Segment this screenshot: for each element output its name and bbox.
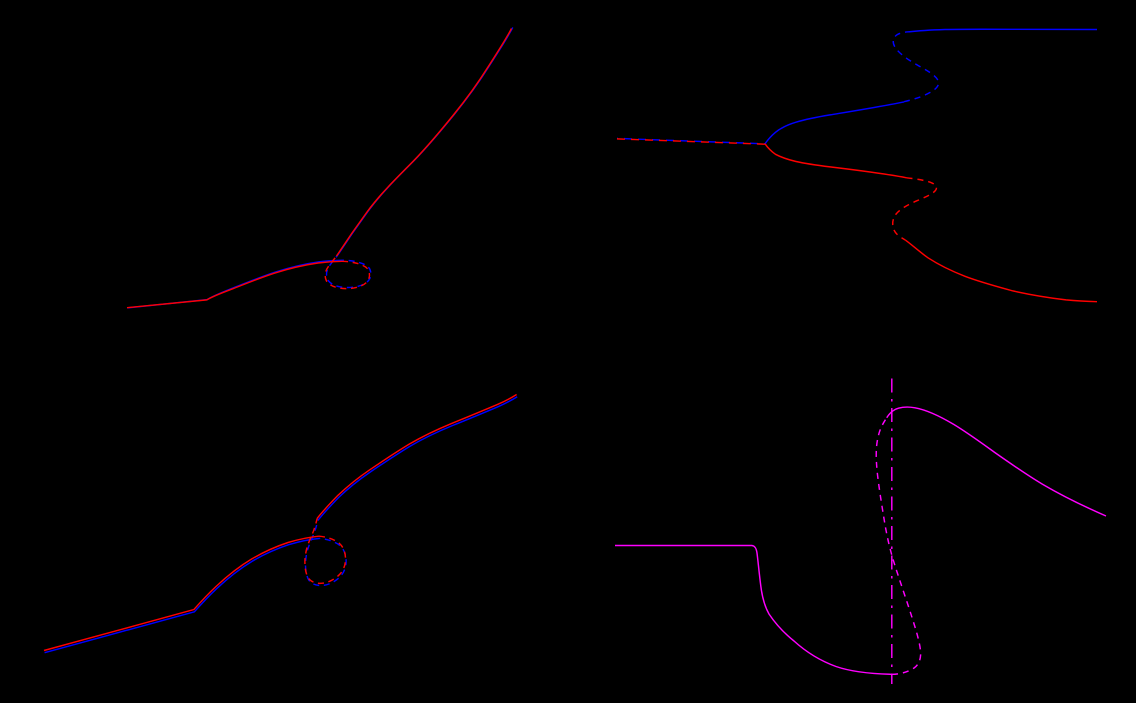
panel4 magenta dashed loop [876, 418, 920, 675]
panel3 blue rising branch [318, 397, 517, 521]
panel2 blue dashed S-fold [893, 32, 938, 102]
panel3 blue curve lower branch [45, 538, 320, 652]
panel2 red solid lower branch [906, 240, 1098, 302]
panel2 red dashed S-fold [893, 178, 937, 240]
panel2 blue solid top branch [909, 29, 1098, 32]
panel1 blue curve lower branch [127, 260, 343, 308]
panel3 red dashed loop [305, 518, 346, 583]
panel2 red dashed stem [617, 139, 765, 144]
panel1 red curve lower branch [127, 261, 342, 307]
panel4 magenta solid peak and descending branch [887, 407, 1106, 516]
panel3 blue dashed loop [305, 521, 346, 586]
panel3 red rising branch [317, 395, 516, 519]
panel1 blue rising branch [338, 27, 513, 255]
panel1 blue dashed loop [327, 255, 371, 288]
panel4 magenta dash-dot vertical line [891, 379, 893, 685]
panel1 red rising branch [337, 29, 512, 257]
panel3 red curve lower branch [44, 536, 319, 650]
panel2 red solid descending branch [765, 144, 907, 178]
panel2 blue dashed stem [617, 138, 765, 143]
panel2 blue solid rising branch [765, 102, 904, 144]
panel1 red dashed loop [325, 256, 369, 289]
panel4 magenta solid upper-left plateau and drop [615, 546, 892, 675]
